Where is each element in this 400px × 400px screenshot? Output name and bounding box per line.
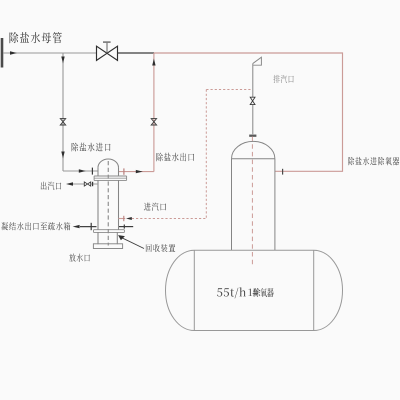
wire to heater inlet [63, 170, 98, 172]
heater bottom plate [93, 244, 122, 249]
pipe heater outlet riser [153, 53, 155, 172]
heater centerline [107, 161, 109, 246]
wire branch down [62, 53, 64, 171]
label 除盐水出口 [156, 153, 194, 162]
label 凝结水出口至疏水箱 [1, 222, 70, 230]
valve V3 [151, 119, 156, 125]
flow arrow right [79, 169, 86, 172]
wire condensate outlet [80, 226, 97, 228]
label 除盐水进除氧器 [348, 157, 399, 165]
heater lower flange [94, 230, 125, 233]
label 回收装置 [146, 244, 175, 252]
heater dome [98, 159, 119, 168]
port tick [123, 168, 125, 174]
arrow left [126, 217, 132, 220]
deaerator head walls [232, 159, 275, 250]
vent flange [249, 135, 256, 137]
label 排汽口 [274, 75, 294, 83]
wire stub [119, 226, 133, 228]
vent flag [253, 57, 262, 65]
heater body walls [98, 180, 119, 229]
deaerator centerline [251, 137, 253, 267]
wire header to valve V1 [3, 52, 97, 54]
label 出汽口 [41, 182, 62, 190]
port tick [91, 168, 93, 175]
pipe demin to deaerator [154, 53, 343, 171]
flow arrow right [136, 170, 143, 173]
valve V1 [97, 42, 118, 60]
deaerator drum [166, 250, 343, 330]
flow arrow down [61, 152, 64, 159]
label 55t/h 1#除氧器 [217, 287, 274, 298]
heater upper flange [94, 176, 127, 180]
flow arrow [10, 51, 17, 54]
wire valve to junction [118, 52, 155, 54]
label 放水口 [69, 254, 90, 262]
leader 回收装置 [118, 235, 144, 248]
valve V4 [84, 182, 90, 186]
label 进汽口 [144, 203, 166, 211]
port tick [282, 169, 284, 175]
valve V5 [250, 97, 255, 104]
port tick [123, 225, 125, 229]
pipe steam top dashed [206, 89, 253, 91]
vent pipe [252, 64, 254, 135]
wire steam outlet [73, 183, 98, 185]
heater neck walls [98, 168, 119, 176]
arrow left [66, 182, 73, 185]
arrow left [73, 225, 80, 228]
pipe steam riser dashed [205, 90, 207, 219]
deaerator head chord [232, 158, 275, 160]
label 除盐水进口 [72, 143, 111, 152]
wire heater outlet [119, 171, 154, 173]
demin water header bar [1, 38, 4, 68]
deaerator head dome [232, 141, 275, 158]
pipe steam inlet [119, 218, 207, 220]
valve V2 [60, 119, 65, 125]
flow arrow down [61, 57, 64, 64]
label 除盐水母管 [10, 32, 62, 43]
port tick [90, 223, 92, 230]
port tick [123, 216, 125, 221]
port tick [92, 182, 94, 186]
heater lower walls [98, 232, 117, 244]
flow arrow up [152, 59, 155, 66]
